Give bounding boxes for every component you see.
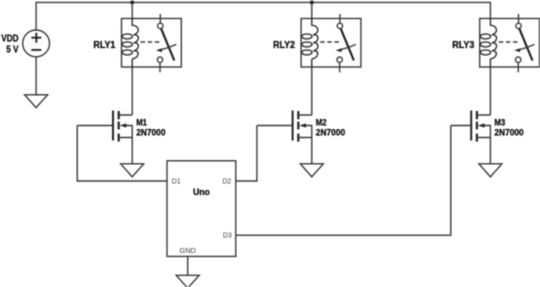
wire VDD to ground xyxy=(35,57,37,95)
throw arrow RLY1 xyxy=(159,44,177,50)
relay RLY1 xyxy=(122,14,182,72)
svg-text:D2: D2 xyxy=(222,179,231,186)
svg-text:Uno: Uno xyxy=(193,187,210,197)
coil RLY3 xyxy=(490,19,496,68)
node junction rail-RLY1 xyxy=(130,0,134,4)
wire M1 gate to Uno D1 xyxy=(77,126,167,182)
wire M2 gate to Uno D2 xyxy=(236,126,257,182)
transistor M3 2N7000 xyxy=(451,111,491,142)
contact terminals RLY1 xyxy=(159,14,161,23)
switch arm RLY2 xyxy=(341,29,354,61)
wire RLY2 coil to M2 drain xyxy=(311,67,313,115)
ground below M2 xyxy=(300,164,323,177)
svg-text:M2: M2 xyxy=(316,117,327,127)
relay RLY2 xyxy=(301,14,361,72)
svg-text:M1: M1 xyxy=(136,117,147,127)
wire VDD top rail xyxy=(36,2,490,30)
ground below M1 xyxy=(121,164,144,177)
wire rail to RLY2 coil xyxy=(311,2,313,18)
node junction rail-RLY2 xyxy=(310,0,314,4)
contact terminals RLY2 xyxy=(339,14,341,23)
relay RLY3 xyxy=(480,14,540,72)
svg-text:D3: D3 xyxy=(223,233,232,240)
wire M3 gate to Uno D3 xyxy=(236,126,451,236)
power source VDD 5V xyxy=(23,30,50,57)
wire RLY1 coil to M1 drain xyxy=(131,67,133,115)
svg-text:5 V: 5 V xyxy=(6,44,18,55)
svg-text:2N7000: 2N7000 xyxy=(494,127,523,137)
wire M3 source to ground xyxy=(489,138,491,164)
throw arrow RLY3 xyxy=(517,44,535,50)
ground below Uno xyxy=(176,275,199,287)
transistor M2 2N7000 xyxy=(257,111,312,142)
svg-text:RLY2: RLY2 xyxy=(273,40,295,51)
coil RLY2 xyxy=(312,19,318,68)
wire Uno GND to ground xyxy=(187,256,189,275)
wire rail to RLY1 coil xyxy=(131,2,133,18)
switch arm RLY1 xyxy=(161,29,174,61)
svg-text:M3: M3 xyxy=(494,117,505,127)
wire RLY3 coil to M3 drain xyxy=(489,67,491,115)
svg-text:D1: D1 xyxy=(172,179,181,186)
svg-text:GND: GND xyxy=(179,246,195,255)
actuation dashed link RLY1 xyxy=(141,41,162,43)
coil RLY1 xyxy=(132,19,138,68)
svg-text:RLY1: RLY1 xyxy=(93,40,115,51)
contact terminals RLY3 xyxy=(518,14,520,23)
actuation dashed link RLY3 xyxy=(499,41,520,43)
transistor M1 2N7000 xyxy=(77,111,132,142)
wire M1 source to ground xyxy=(131,138,133,164)
actuation dashed link RLY2 xyxy=(320,41,341,43)
svg-text:RLY3: RLY3 xyxy=(452,40,474,51)
wire M2 source to ground xyxy=(311,138,313,164)
microcontroller U1 Uno xyxy=(167,161,236,257)
svg-text:2N7000: 2N7000 xyxy=(136,127,165,137)
ground below M3 xyxy=(479,164,502,177)
ground below VDD xyxy=(25,95,48,108)
switch arm RLY3 xyxy=(519,29,532,61)
throw arrow RLY2 xyxy=(338,44,356,50)
svg-text:2N7000: 2N7000 xyxy=(316,127,345,137)
svg-text:VDD: VDD xyxy=(1,33,18,44)
